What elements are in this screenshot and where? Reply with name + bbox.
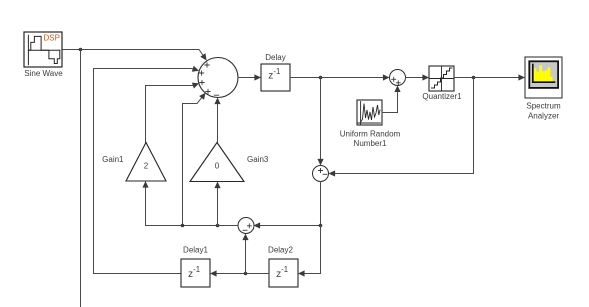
arrowhead W8 [317, 159, 323, 166]
block Uniform Random Number1 [357, 100, 382, 125]
bars of Spectrum Analyzer [534, 65, 553, 81]
wire W7 Delay to Sum2 [290, 77, 384, 79]
wire W10 Sum2 to Quantizer1 [406, 77, 424, 79]
svg-text:Gain1: Gain1 [102, 155, 124, 164]
svg-text:Quantizer1: Quantizer1 [422, 92, 462, 101]
arrowhead W13 [254, 222, 261, 228]
arrowhead W16 [242, 234, 248, 241]
node junction Quantizer out [472, 76, 476, 80]
arrowhead W15 [210, 270, 217, 276]
wire W17 Sum4 output to Gain1 [146, 187, 239, 226]
svg-text:Number1: Number1 [354, 139, 387, 148]
wire W5 Gain3 output to Sum1 bottom [217, 104, 219, 143]
wire W13 Sum3 output to Sum4 [260, 182, 321, 226]
wire W1 Sine Wave to Sum1 [62, 50, 203, 56]
node junction feedback at x183 [181, 224, 185, 228]
sign plus 3 of S1 [200, 80, 204, 84]
wire W18 junction up to Gain3 [217, 188, 219, 226]
sum S1 [198, 58, 238, 98]
sign plus 2 of S1 [199, 71, 203, 75]
wire W4 feedback vertical to Sum1 [183, 97, 202, 225]
svg-text:Delay: Delay [265, 53, 285, 62]
wire W16 junction up to Sum4 bottom [245, 240, 247, 274]
sign minus right of S3 [323, 173, 327, 175]
wire W15 Delay2 output to Delay1 [216, 273, 269, 275]
arrowhead W5 [214, 98, 220, 105]
sign plus left of S2 [392, 77, 396, 81]
wire W9 URN to Sum2 bottom [382, 91, 398, 112]
node junction Sum3 out [319, 224, 323, 228]
sign plus right of S4 [247, 224, 251, 228]
svg-text:Delay1: Delay1 [183, 246, 208, 255]
wire W11 Quantizer1 to Spectrum Analyzer [454, 77, 519, 79]
node junction Delay2 out [244, 272, 248, 276]
block Delay [261, 64, 290, 91]
gain Gain3 [190, 143, 244, 182]
svg-text:0: 0 [215, 162, 220, 171]
node junction Delay out [319, 76, 323, 80]
sum S4 [238, 218, 254, 234]
block Delay1 [181, 259, 210, 287]
arrowhead W10 [422, 74, 429, 80]
svg-text:DSP: DSP [44, 34, 60, 43]
gain Gain1 [126, 143, 166, 182]
sign plus 1 of S1 [205, 63, 209, 67]
svg-text:Analyzer: Analyzer [528, 112, 559, 121]
arrowhead W6 [254, 74, 261, 80]
svg-text:2: 2 [144, 162, 149, 171]
block Quantizer1 [429, 66, 454, 91]
wire W1b junction down offscreen [80, 50, 82, 307]
wire W12 junction down and left to Sum3 [335, 78, 474, 174]
arrowhead W1 [200, 53, 206, 60]
svg-text:Delay2: Delay2 [268, 246, 293, 255]
arrowhead W11 [518, 74, 525, 80]
svg-text:Uniform Random: Uniform Random [340, 130, 401, 139]
arrowhead W3 [192, 83, 199, 89]
sign minus bottom of S4 [243, 229, 247, 231]
sign plus top of S3 [319, 169, 323, 173]
block Delay2 [269, 259, 298, 287]
sum S2 [390, 70, 406, 86]
sign plus 4 of S1 [206, 89, 210, 93]
arrowhead W12 [329, 170, 336, 176]
node junction at Sine wire [79, 48, 83, 52]
arrowhead W17 [142, 181, 148, 188]
arrowhead W7 [383, 74, 390, 80]
sign plus bottom of S2 [396, 81, 400, 85]
arrowhead W18 [214, 182, 220, 189]
wire W3 Gain1 output to Sum1 [146, 85, 194, 142]
svg-text:Spectrum: Spectrum [526, 102, 561, 111]
sum S3 [313, 166, 329, 182]
wire W2 Delay1 output to Sum1 [94, 69, 194, 274]
wire W6 Sum1 to Delay [238, 77, 255, 79]
svg-text:Gain3: Gain3 [247, 155, 269, 164]
arrowhead W4 [199, 93, 206, 100]
node junction feedback at x217 [216, 224, 220, 228]
block Sine Wave [24, 32, 62, 67]
arrowhead W2 [192, 66, 199, 72]
block Spectrum Analyzer [525, 57, 562, 98]
sign minus of S1 [214, 94, 218, 96]
wire W14 junction to Delay2 input [304, 226, 321, 274]
arrowhead W14 [298, 270, 305, 276]
svg-text:Sine Wave: Sine Wave [24, 69, 63, 78]
wire W8 junction down to Sum3 [320, 78, 322, 160]
arrowhead W9 [394, 85, 400, 92]
